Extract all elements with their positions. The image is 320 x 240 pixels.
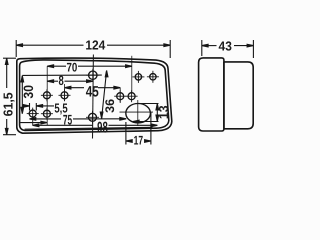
svg-text:17: 17 (134, 133, 143, 147)
svg-text:8: 8 (58, 73, 64, 88)
svg-text:124: 124 (85, 38, 106, 53)
svg-text:70: 70 (66, 61, 77, 75)
svg-text:13: 13 (156, 105, 171, 119)
svg-text:45: 45 (86, 84, 99, 101)
svg-text:36: 36 (103, 99, 117, 113)
svg-text:98: 98 (97, 120, 108, 137)
svg-text:75: 75 (63, 111, 72, 127)
svg-text:61,5: 61,5 (1, 92, 16, 116)
svg-text:43: 43 (219, 38, 232, 53)
svg-text:30: 30 (21, 85, 36, 99)
